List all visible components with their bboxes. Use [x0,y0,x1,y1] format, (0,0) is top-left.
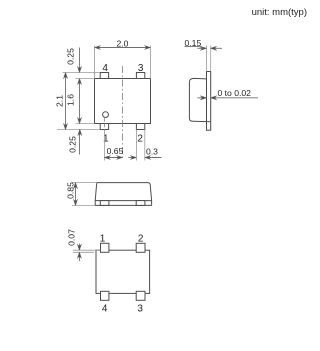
bottom view body outline [96,250,150,293]
svg-text:0.25: 0.25 [68,136,78,153]
svg-text:0 to 0.02: 0 to 0.02 [218,88,252,98]
svg-text:4: 4 [102,63,108,74]
dim 2.1 extension lines [63,72,101,74]
side lead [207,72,211,131]
svg-text:2.1: 2.1 [54,95,64,107]
pad 2 [136,243,145,252]
dim 0 to 0.02 arrows [198,97,207,99]
dim 0.85 extension lines [72,182,97,184]
dim 0.07 leader arrows [78,244,80,251]
front lead left [100,201,109,206]
svg-text:1: 1 [100,234,106,245]
svg-text:0.25: 0.25 [66,48,76,65]
top view body outline [95,79,151,124]
dim 2.0 extension lines [94,46,96,79]
svg-text:1: 1 [103,134,109,145]
svg-text:3: 3 [138,63,144,74]
pad 1 [101,243,109,252]
pin 3 [136,73,144,79]
svg-text:2.0: 2.0 [117,38,129,48]
pin 4 [100,73,108,79]
dim 0.07 extension lines [73,249,101,251]
dim 1.6 extension lines [76,78,95,80]
dim 0.15 arrows [198,47,207,49]
svg-text:0.65: 0.65 [107,146,124,156]
svg-text:4: 4 [102,304,108,315]
svg-text:2: 2 [138,234,144,245]
svg-text:3: 3 [137,304,143,315]
dim 0.3 extension lines [135,130,137,161]
pin1 center dashed line [103,118,105,131]
dim 0.25 bottom leader [79,130,81,155]
svg-text:1.6: 1.6 [65,94,75,106]
dim 2.0 line [95,47,151,49]
svg-text:2: 2 [137,134,143,145]
dim 0.85 line [75,183,77,206]
pad 3 [136,291,145,300]
svg-text:0.07: 0.07 [66,229,76,246]
svg-text:0.3: 0.3 [146,146,158,156]
pin 2 [136,124,144,130]
vertical center line (dash-dot) [122,66,124,161]
pin 1 [100,124,108,130]
dim 0.25 top leader [79,48,81,73]
pad 4 [101,291,109,300]
svg-text:unit: mm(typ): unit: mm(typ) [252,7,307,18]
dim 2.1 line [65,73,67,130]
front body outline [95,183,151,206]
front lead right [136,201,145,206]
dim 0.3 arrows [128,157,136,159]
front body bottom line [95,200,151,202]
pin 1 indicator circle [103,112,109,118]
dim 1.6 line [79,79,81,124]
dim 0.65 line [104,157,122,159]
side body profile [189,78,210,121]
lead extension lines up [206,46,208,72]
svg-text:0.85: 0.85 [65,182,75,199]
